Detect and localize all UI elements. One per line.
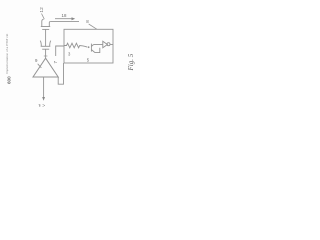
margin title text (rotated) [5, 34, 9, 74]
leader line from label 9 [38, 64, 42, 68]
svg-text:600: 600 [7, 76, 12, 84]
wire stub from resistor node out of box [56, 46, 64, 56]
wire Q1 to inverter [94, 44, 103, 46]
wire from M1 drain [50, 21, 79, 23]
Vref arrow terminal [42, 97, 45, 101]
leader line from label 8 [89, 24, 97, 29]
transistor M1 [41, 19, 51, 29]
label Vref (rotated) [38, 104, 47, 107]
label 18 [62, 13, 67, 18]
label 12 (rotated) [39, 7, 45, 13]
op-amp input wire to box [58, 63, 63, 84]
svg-text:Fig. 5: Fig. 5 [127, 53, 135, 71]
label 3 (resistor) [68, 52, 71, 57]
wire inverter to box edge [110, 44, 113, 46]
svg-text:ref: ref [38, 104, 42, 107]
arrow for label 18 [55, 17, 75, 20]
op-amp input wire to Vref [43, 77, 45, 97]
label 8 [86, 19, 89, 24]
wire M1 to M2 [45, 29, 47, 46]
op-amp U1 [33, 58, 58, 77]
label 7 (at wire stub end) [53, 61, 58, 64]
svg-text:12: 12 [39, 7, 45, 13]
resistor R1 [64, 43, 87, 48]
svg-text:18: 18 [62, 13, 67, 18]
node tick above apex [44, 55, 48, 57]
svg-text:Implementation of a PTAT ckt: Implementation of a PTAT ckt [5, 34, 9, 74]
wire M2 to op-amp apex [45, 49, 47, 58]
margin numeral 600 (rotated, bold) [7, 76, 12, 84]
junction dot [88, 46, 90, 48]
figure caption Fig. 5 (rotated) [127, 53, 135, 71]
inverter U2 [103, 41, 110, 48]
svg-text:V: V [41, 104, 46, 107]
label 5 (transistor) [87, 58, 90, 63]
leader line from label 12 [42, 14, 45, 20]
label 9 [35, 58, 38, 63]
transistor Q1 [91, 44, 99, 53]
sub-circuit box [64, 29, 113, 63]
transistor M2 [40, 41, 51, 50]
